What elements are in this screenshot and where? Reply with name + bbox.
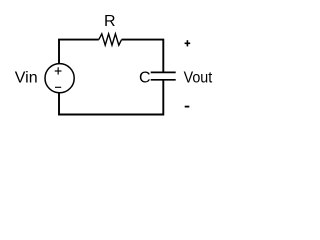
source - polarity mark [55, 86, 61, 88]
wire: capacitor bottom plate down, along bottom, up to source [59, 80, 163, 115]
resistor R (zigzag body) [99, 34, 122, 45]
capacitor C plates [151, 72, 176, 79]
svg-text:Vout: Vout [184, 70, 213, 87]
output + polarity mark [185, 40, 191, 46]
wire: source top to resistor left lead [59, 40, 99, 64]
wire: resistor right lead to capacitor top plate [122, 40, 164, 73]
svg-text:Vin: Vin [15, 70, 38, 87]
output - polarity mark [185, 106, 190, 108]
svg-text:R: R [104, 13, 116, 30]
voltage source Vin (circle) [45, 64, 74, 93]
svg-text:C: C [139, 69, 151, 86]
source + polarity mark [55, 67, 62, 74]
